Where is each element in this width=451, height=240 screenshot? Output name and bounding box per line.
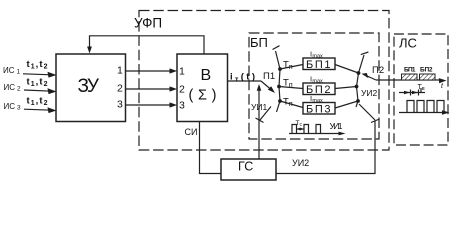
svg-text:БП: БП (250, 35, 268, 50)
svg-text:1: 1 (17, 68, 21, 75)
svg-text:УФП: УФП (134, 16, 162, 31)
label UFP (134, 16, 167, 31)
pulse train in LS (399, 101, 450, 115)
timing annotation Tv (399, 88, 425, 96)
svg-text:УИ1: УИ1 (251, 102, 268, 112)
block UFP dashed box (139, 11, 389, 151)
svg-text:В: В (201, 67, 212, 84)
node P2 contact 2 (355, 85, 359, 89)
wire contact3 to BP3 (280, 101, 303, 108)
node P2 contact 3 (356, 99, 360, 103)
svg-text:(Σ): (Σ) (189, 88, 217, 104)
input IS2 (4, 76, 48, 92)
block BP3 (303, 103, 335, 115)
wire BP1 to P2 contact (335, 65, 359, 74)
node P1 contact 2 (277, 85, 281, 89)
wire contact2 to BP2 (279, 87, 303, 89)
switch P1 wiper (261, 81, 275, 93)
svg-text:ИС: ИС (4, 83, 16, 92)
wire BP3 to P2 contact (335, 101, 358, 108)
wire IS3 arrow (24, 107, 57, 113)
svg-text:3: 3 (17, 104, 21, 111)
svg-text:3: 3 (117, 99, 123, 111)
node P2 contact 1 (357, 71, 361, 75)
input IS1 (3, 59, 48, 75)
svg-text:2: 2 (117, 83, 123, 95)
wire IS2 arrow (24, 88, 57, 94)
svg-text:ЗУ: ЗУ (78, 76, 100, 97)
block ZU (56, 54, 126, 122)
svg-text:ИС: ИС (3, 66, 15, 75)
block GS (221, 159, 276, 180)
wire ZU-V line 3 (126, 102, 178, 107)
block LS dashed box (394, 34, 448, 145)
svg-text:ЛС: ЛС (399, 36, 417, 51)
wire contact1 to BP1 (280, 65, 303, 70)
svg-text:2: 2 (179, 84, 185, 96)
hatched block BP1 in LS (402, 74, 418, 80)
hatched block BP2 in LS (420, 74, 436, 80)
svg-text:БП2: БП2 (420, 67, 433, 74)
svg-text:П1: П1 (263, 71, 275, 82)
svg-text:УИ1: УИ1 (330, 121, 343, 131)
svg-text:БП1: БП1 (306, 59, 331, 71)
pin 2 labels (117, 83, 185, 96)
wire output i(t) from V (228, 80, 262, 82)
wire ZU-V line 2 (126, 86, 178, 91)
svg-text:1: 1 (117, 65, 123, 77)
label LS (399, 36, 417, 51)
svg-text:БП3: БП3 (306, 103, 331, 115)
svg-text:ГС: ГС (238, 160, 253, 174)
svg-text:УИ2: УИ2 (292, 158, 309, 168)
node P1 contact 1 (278, 67, 282, 71)
control UI1 vertical from GS (257, 84, 262, 159)
mech link P1 (256, 107, 272, 123)
block BP2 (303, 83, 335, 95)
pulse waveform UI1 (289, 125, 346, 136)
switch P2 contact arc (356, 55, 364, 107)
svg-text:ИС: ИС (4, 102, 16, 111)
block V (sum) (177, 54, 228, 122)
svg-text:3: 3 (179, 100, 185, 112)
svg-text:БП1: БП1 (404, 67, 416, 74)
svg-text:Тс: Тс (296, 120, 303, 128)
block BP1 (303, 58, 335, 70)
svg-text:2: 2 (17, 85, 21, 92)
svg-text:П2: П2 (372, 65, 384, 76)
label BP (250, 35, 273, 50)
svg-text:УИ2: УИ2 (361, 88, 378, 98)
wire feedback V to ZU (90, 36, 205, 54)
wire ZU-V line 1 (126, 68, 178, 73)
svg-text:1: 1 (179, 66, 185, 78)
wire SI from V to GS (200, 122, 222, 174)
switch P1 contact arc (276, 51, 281, 112)
mech link P2 (359, 104, 380, 123)
pin 3 labels (117, 99, 185, 112)
wire BP2 to P2 contact (335, 87, 357, 89)
svg-text:СИ: СИ (185, 127, 198, 137)
wire P2 output to LS (376, 78, 447, 83)
block BP dashed box (249, 33, 379, 139)
input IS3 (4, 95, 48, 111)
switch P2 wiper (362, 73, 377, 80)
svg-text:Тв: Тв (418, 84, 425, 92)
pin 1 labels (117, 65, 185, 78)
node P1 contact 3 (278, 99, 282, 103)
wire IS1 arrow (23, 72, 57, 78)
wire GS output UI2 (276, 121, 375, 174)
